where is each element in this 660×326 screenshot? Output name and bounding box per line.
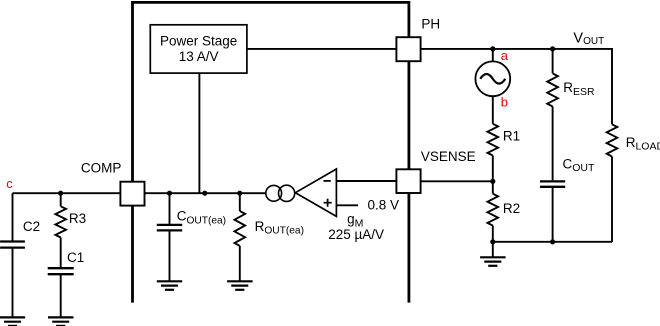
svg-text:Power Stage: Power Stage xyxy=(160,33,237,48)
svg-text:13 A/V: 13 A/V xyxy=(179,49,219,64)
svg-text:PH: PH xyxy=(421,16,440,31)
svg-text:C1: C1 xyxy=(67,250,84,265)
svg-text:R1: R1 xyxy=(503,129,520,144)
svg-text:R2: R2 xyxy=(503,201,520,216)
svg-text:c: c xyxy=(6,176,13,191)
svg-text:0.8 V: 0.8 V xyxy=(368,197,400,212)
svg-text:b: b xyxy=(501,95,508,110)
svg-text:225 µA/V: 225 µA/V xyxy=(328,227,384,242)
svg-text:C2: C2 xyxy=(23,219,40,234)
svg-text:VSENSE: VSENSE xyxy=(421,149,476,164)
svg-text:COMP: COMP xyxy=(81,160,122,175)
svg-text:a: a xyxy=(501,48,509,63)
svg-text:R3: R3 xyxy=(69,211,86,226)
